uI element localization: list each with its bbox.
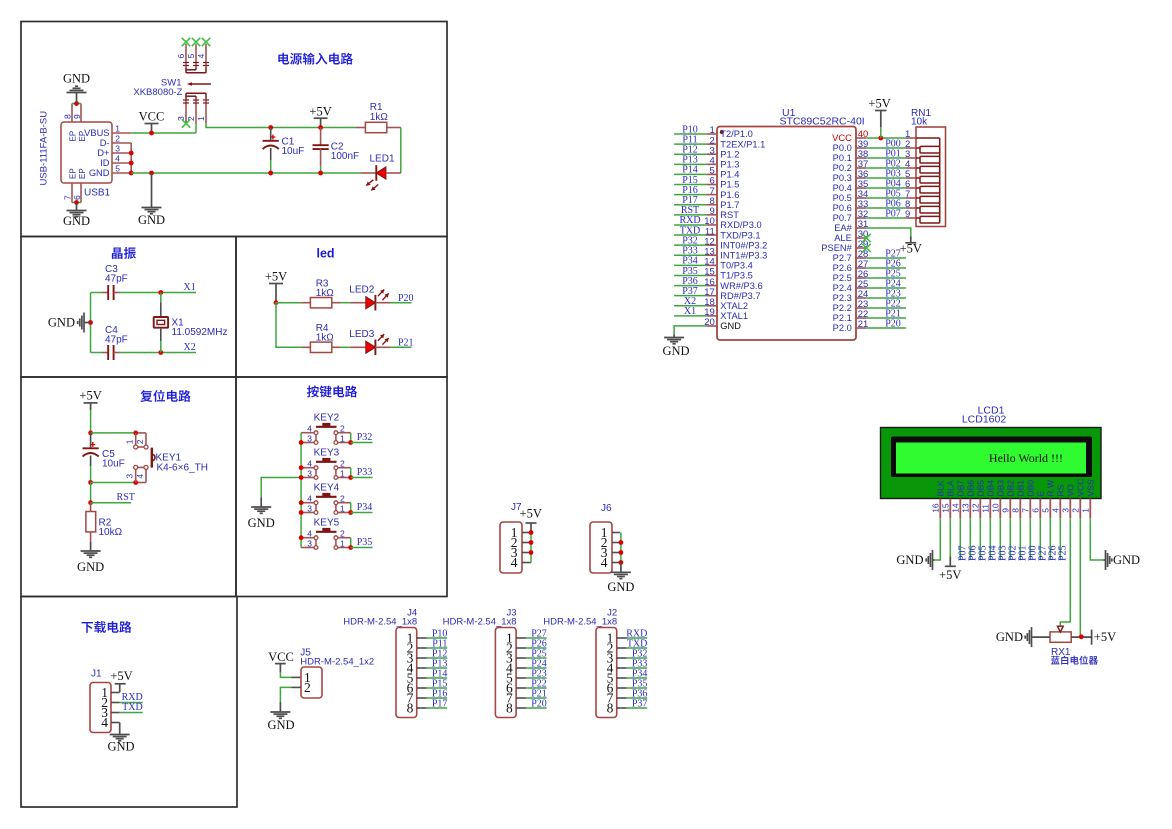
junction bottom shield bbox=[74, 200, 79, 205]
svg-text:J1: J1 bbox=[91, 669, 102, 680]
net label X1 at U1 bbox=[684, 306, 696, 317]
svg-text:6: 6 bbox=[72, 195, 82, 200]
svg-text:GND: GND bbox=[720, 321, 741, 331]
net label P34 bbox=[632, 668, 648, 679]
wire U1 P2.4 net P24 bbox=[866, 287, 906, 289]
ground GND U1 bbox=[662, 335, 689, 359]
svg-text:GND: GND bbox=[107, 740, 134, 754]
wire U1 pin20 GND bbox=[674, 326, 706, 335]
junction D+ bbox=[129, 151, 134, 156]
svg-text:2: 2 bbox=[340, 424, 345, 434]
svg-text:GND: GND bbox=[996, 630, 1023, 644]
R1 value labels bbox=[370, 102, 389, 123]
net label X2 bbox=[184, 342, 196, 353]
svg-text:9: 9 bbox=[1001, 508, 1011, 513]
LCD1 pins 16-1 bbox=[931, 499, 1091, 519]
net label P07 bbox=[885, 208, 901, 219]
wire U1 pin6 net P15 bbox=[674, 184, 706, 186]
led LED1 bbox=[362, 165, 401, 190]
svg-text:47pF: 47pF bbox=[105, 274, 128, 285]
svg-text:+5V: +5V bbox=[110, 669, 132, 683]
J3 pin 8 wire P20 bbox=[516, 707, 547, 709]
switch SW1 slider arrow bbox=[187, 82, 211, 86]
power +5V LCD backlight inverted bbox=[939, 557, 961, 582]
net label P11 at U1 bbox=[682, 134, 697, 145]
svg-text:GND: GND bbox=[248, 516, 275, 530]
net label RST bbox=[117, 492, 135, 503]
svg-text:1: 1 bbox=[1081, 508, 1091, 513]
power flag VCC J5 bbox=[268, 650, 294, 673]
svg-text:3: 3 bbox=[307, 468, 312, 478]
LCD1 pin name labels bbox=[936, 479, 1096, 497]
junction +5V rail at C2 bbox=[318, 125, 323, 130]
wire U1 P0.7 to RN1 bbox=[866, 217, 906, 219]
pushbutton KEY1 K4-6x6_TH bbox=[124, 433, 155, 483]
svg-text:3: 3 bbox=[124, 474, 134, 479]
svg-text:WR#/P3.6: WR#/P3.6 bbox=[720, 281, 762, 291]
wire LCD VSS to GND bbox=[1090, 518, 1103, 560]
svg-text:4: 4 bbox=[307, 529, 312, 539]
power +5V led section bbox=[265, 270, 287, 303]
net label RXD bbox=[626, 628, 647, 639]
J2 pin 7 wire P36 bbox=[617, 697, 648, 699]
net label P21 bbox=[398, 338, 414, 349]
net label P21 at U1 bbox=[885, 308, 901, 319]
wire U1 P2.5 net P25 bbox=[866, 277, 906, 279]
svg-text:P20: P20 bbox=[398, 293, 414, 304]
net label P26 bbox=[531, 638, 547, 649]
J4 pin 6 wire P15 bbox=[417, 687, 448, 689]
net label P15 bbox=[432, 678, 448, 689]
junction ID bbox=[129, 161, 134, 166]
pushbutton KEY2 bbox=[301, 413, 351, 445]
net label P10 at U1 bbox=[682, 124, 698, 135]
svg-text:BLA: BLA bbox=[946, 480, 956, 496]
svg-text:TXD: TXD bbox=[122, 702, 143, 713]
svg-text:P1.3: P1.3 bbox=[720, 160, 739, 170]
net label P12 at U1 bbox=[682, 145, 698, 156]
junction bus KEY3 bottom bbox=[299, 475, 304, 480]
net label P36 bbox=[632, 688, 648, 699]
display LCD1 LCD1602 bbox=[881, 405, 1102, 499]
net label P11 bbox=[432, 638, 447, 649]
svg-text:P0.0: P0.0 bbox=[833, 143, 852, 153]
svg-text:P33: P33 bbox=[357, 467, 373, 478]
power +5V U1 bbox=[868, 97, 890, 139]
J2 pin 1 wire RXD bbox=[617, 637, 648, 639]
J1 pin4 to GND bbox=[111, 722, 120, 724]
net label P06 rotated bbox=[967, 545, 978, 561]
J3 pin 5 wire P23 bbox=[516, 677, 547, 679]
wire KEY2 to P32 bbox=[351, 442, 373, 444]
ground GND top of USB1 bbox=[63, 72, 90, 104]
net label P26 at U1 bbox=[885, 258, 901, 269]
net label RXD bbox=[122, 692, 143, 703]
svg-text:14: 14 bbox=[951, 503, 961, 513]
net label P26 rotated bbox=[1047, 545, 1058, 561]
svg-text:P2.0: P2.0 bbox=[833, 323, 852, 333]
svg-text:2: 2 bbox=[115, 134, 120, 144]
wire U1 pin7 net P16 bbox=[674, 194, 706, 196]
svg-text:T2EX/P1.1: T2EX/P1.1 bbox=[720, 139, 765, 149]
svg-text:RST: RST bbox=[720, 210, 739, 220]
crystal X1 11.0592MHz bbox=[154, 293, 168, 353]
capacitor C4 47pF bbox=[102, 345, 120, 360]
J2 pin 4 wire P33 bbox=[617, 667, 648, 669]
svg-text:R.W: R.W bbox=[1046, 480, 1056, 497]
junction KEY1 pin3 bbox=[133, 480, 138, 485]
net label P01 rotated bbox=[1017, 545, 1028, 561]
wire LCD VO to potentiometer wiper bbox=[1060, 518, 1070, 627]
svg-text:RS: RS bbox=[1056, 484, 1066, 496]
svg-text:3: 3 bbox=[115, 144, 120, 154]
svg-text:P20: P20 bbox=[885, 318, 901, 329]
wire LCD BLK to GND bbox=[935, 518, 941, 560]
net label P34 at U1 bbox=[682, 256, 698, 267]
wire U1 pin8 net P17 bbox=[674, 204, 706, 206]
net label P00 rotated bbox=[1027, 545, 1038, 561]
C2 value labels bbox=[331, 142, 359, 163]
led LED3 bbox=[350, 334, 390, 355]
svg-text:LCD1602: LCD1602 bbox=[962, 413, 1007, 425]
svg-text:DB7: DB7 bbox=[956, 480, 966, 497]
svg-text:P2.5: P2.5 bbox=[833, 273, 852, 283]
wire keys GND stub bbox=[261, 478, 301, 498]
svg-text:ID: ID bbox=[100, 158, 110, 168]
wire LED2 to P20 bbox=[390, 302, 411, 304]
wire U1 pin17 net P37 bbox=[674, 295, 706, 297]
wire U1 pin4 net P13 bbox=[674, 163, 706, 165]
svg-text:2: 2 bbox=[340, 529, 345, 539]
svg-text:P0.3: P0.3 bbox=[833, 173, 852, 183]
svg-text:DB6: DB6 bbox=[966, 480, 976, 497]
svg-text:8: 8 bbox=[506, 701, 513, 716]
net label P17 bbox=[432, 698, 448, 709]
R4 value labels bbox=[316, 323, 335, 344]
resistor R2 10k bbox=[86, 503, 96, 542]
wire U1 pin19 net X1 bbox=[674, 315, 706, 317]
svg-text:P2.2: P2.2 bbox=[833, 303, 852, 313]
J2 pin 2 wire TXD bbox=[617, 647, 648, 649]
net label P03 rotated bbox=[997, 545, 1008, 561]
svg-text:RST: RST bbox=[117, 492, 135, 503]
wire KEY3 right link bbox=[350, 468, 352, 478]
J3 pin 4 wire P24 bbox=[516, 667, 547, 669]
wire +5V to R3/R4 bbox=[276, 303, 302, 348]
net label P20 bbox=[398, 293, 414, 304]
resistor R4 1k bbox=[302, 342, 341, 352]
svg-text:PSEN#: PSEN# bbox=[821, 243, 852, 253]
junction bus KEY5 top bbox=[299, 535, 304, 540]
svg-text:E: E bbox=[1036, 491, 1046, 497]
junction +5V rail at C1 bbox=[268, 125, 273, 130]
junction bus KEY4 top bbox=[299, 500, 304, 505]
junction KEY5 output bbox=[348, 545, 353, 550]
svg-text:4: 4 bbox=[101, 715, 108, 730]
svg-text:DB1: DB1 bbox=[1016, 480, 1026, 497]
svg-text:EP: EP bbox=[78, 131, 87, 142]
junction X1 node bbox=[158, 290, 163, 295]
junction reset bottom bbox=[88, 480, 93, 485]
wire crystal top X1 net bbox=[91, 292, 197, 294]
svg-text:EP: EP bbox=[68, 168, 77, 179]
wire U1 P0.0 to RN1 bbox=[866, 147, 906, 149]
J1 pin2 wire RXD bbox=[111, 702, 143, 704]
wire LCD pin7 net P00 bbox=[1029, 518, 1031, 560]
wire KEY5 right link bbox=[350, 538, 352, 548]
svg-text:P1.7: P1.7 bbox=[720, 200, 739, 210]
wire crystal bottom X2 net bbox=[91, 352, 197, 354]
svg-text:VSS: VSS bbox=[1086, 479, 1096, 496]
net label P33 at U1 bbox=[682, 246, 698, 257]
connector J7 body bbox=[500, 502, 522, 573]
svg-text:8: 8 bbox=[63, 114, 73, 119]
net label P25 bbox=[531, 648, 547, 659]
svg-text:4: 4 bbox=[511, 555, 518, 570]
ground GND J1 bbox=[107, 723, 134, 754]
svg-text:P17: P17 bbox=[432, 698, 448, 709]
wire U1 pin2 net P11 bbox=[674, 143, 706, 145]
ground GND RX1 bbox=[996, 627, 1032, 647]
svg-text:KEY3: KEY3 bbox=[314, 448, 340, 459]
svg-text:T1/P3.5: T1/P3.5 bbox=[720, 271, 753, 281]
wire U1 P0.2 to RN1 bbox=[866, 167, 906, 169]
svg-text:6: 6 bbox=[176, 54, 186, 59]
junction J7 pin1 bbox=[529, 530, 534, 535]
svg-text:X2: X2 bbox=[184, 342, 196, 353]
svg-text:RD#/P3.7: RD#/P3.7 bbox=[720, 291, 760, 301]
net label TXD at U1 bbox=[680, 225, 701, 236]
wire shield top bbox=[72, 103, 81, 105]
net label P00 bbox=[885, 138, 901, 149]
wire KEY4 right link bbox=[350, 503, 352, 513]
junction J6 pin3 bbox=[619, 550, 624, 555]
J4 pin 2 wire P11 bbox=[417, 647, 448, 649]
net label P37 bbox=[632, 698, 648, 709]
wire KEY2 right link bbox=[350, 433, 352, 443]
net label P22 bbox=[531, 678, 547, 689]
svg-text:13: 13 bbox=[961, 503, 971, 513]
wire U1 pin5 net P14 bbox=[674, 173, 706, 175]
switch SW1 top pins 6,5,4 with no-connect crosses bbox=[176, 38, 210, 68]
section title led bbox=[317, 247, 335, 261]
svg-text:KEY4: KEY4 bbox=[314, 483, 340, 494]
net label P35 bbox=[357, 537, 373, 548]
wire USB data pins tie bbox=[130, 143, 132, 173]
connector J5 HDR-M-2.54_1x2 bbox=[300, 648, 374, 699]
svg-text:DB0: DB0 bbox=[1026, 480, 1036, 497]
power +5V top rail bbox=[309, 105, 331, 128]
wire U1 P2.2 net P22 bbox=[866, 307, 906, 309]
wire U1 pin12 net P32 bbox=[674, 244, 706, 246]
wire J5 pin2 to GND bbox=[280, 687, 301, 702]
U1 right pins 40-21 bbox=[821, 129, 868, 333]
svg-text:GND: GND bbox=[138, 213, 165, 227]
net label P34 bbox=[357, 502, 373, 513]
J3 pin 7 wire P21 bbox=[516, 697, 547, 699]
SW1 reference label bbox=[133, 78, 182, 99]
ground GND J6 bbox=[607, 563, 634, 595]
section title 按键电路 bbox=[307, 385, 357, 397]
J2 pin 8 wire P37 bbox=[617, 707, 648, 709]
svg-text:8: 8 bbox=[607, 701, 614, 716]
net label P04 bbox=[885, 178, 901, 189]
svg-text:GND: GND bbox=[896, 553, 923, 567]
net label P25 rotated bbox=[1057, 545, 1068, 561]
junction bus KEY4 bottom bbox=[299, 510, 304, 515]
LED1 reference label bbox=[370, 154, 395, 165]
wire LCD pin14 net P07 bbox=[959, 518, 961, 560]
svg-text:KEY5: KEY5 bbox=[314, 518, 340, 529]
wire U1 P2.3 net P23 bbox=[866, 297, 906, 299]
svg-text:P2.6: P2.6 bbox=[833, 263, 852, 273]
net label P27 at U1 bbox=[885, 248, 901, 259]
svg-text:4: 4 bbox=[307, 424, 312, 434]
J3 pin 6 wire P22 bbox=[516, 687, 547, 689]
wire U1 pin18 net X2 bbox=[674, 305, 706, 307]
net label RXD at U1 bbox=[679, 215, 700, 226]
ground GND keys bbox=[248, 498, 275, 531]
svg-text:D+: D+ bbox=[97, 148, 109, 158]
svg-text:BLK: BLK bbox=[936, 480, 946, 496]
led LED2 bbox=[350, 290, 390, 311]
wire U1 pin13 net P33 bbox=[674, 254, 706, 256]
svg-text:7: 7 bbox=[1021, 508, 1031, 513]
svg-text:+5V: +5V bbox=[1094, 630, 1116, 644]
net label P32 at U1 bbox=[682, 235, 698, 246]
svg-text:J6: J6 bbox=[601, 503, 612, 514]
resistor R3 1k bbox=[302, 298, 341, 308]
svg-text:+5V: +5V bbox=[265, 270, 287, 284]
ground GND reset bbox=[77, 542, 104, 574]
J4 pin 1 wire P10 bbox=[417, 637, 448, 639]
switch SW1 bottom pins 3,2,1 bbox=[176, 99, 209, 124]
svg-text:P2.1: P2.1 bbox=[833, 313, 852, 323]
svg-text:4: 4 bbox=[135, 474, 145, 479]
wire LCD pin4 net P25 bbox=[1059, 518, 1061, 560]
svg-text:3: 3 bbox=[307, 538, 312, 548]
net label P23 at U1 bbox=[885, 288, 901, 299]
J4 pin 7 wire P16 bbox=[417, 697, 448, 699]
svg-text:12: 12 bbox=[971, 503, 981, 513]
svg-text:P21: P21 bbox=[398, 338, 414, 349]
wire reset to RST bbox=[90, 483, 92, 503]
svg-text:P25: P25 bbox=[1057, 545, 1068, 561]
net label TXD bbox=[627, 638, 648, 649]
no-connect cross PSEN# bbox=[862, 244, 870, 252]
J3 pin 2 wire P26 bbox=[516, 647, 547, 649]
junction X2 node bbox=[158, 350, 163, 355]
net label P15 at U1 bbox=[682, 175, 698, 186]
svg-text:9: 9 bbox=[72, 114, 82, 119]
wire U1 P2.6 net P26 bbox=[866, 267, 906, 269]
net label P16 at U1 bbox=[682, 185, 698, 196]
wire U1 P0.6 to RN1 bbox=[866, 207, 906, 209]
LED3 reference label bbox=[349, 329, 374, 340]
wire KEY4 to P34 bbox=[351, 512, 373, 514]
net label P27 rotated bbox=[1037, 545, 1048, 561]
ground GND LCD left bbox=[896, 550, 934, 570]
net label P10 bbox=[432, 628, 448, 639]
svg-text:X1: X1 bbox=[184, 282, 196, 293]
ground GND bottom of USB1 bbox=[63, 203, 90, 229]
ground GND LCD right bbox=[1104, 550, 1141, 570]
junction KEY1 pin1 bbox=[133, 431, 138, 436]
svg-text:+5V: +5V bbox=[868, 97, 890, 111]
svg-text:P0.1: P0.1 bbox=[833, 153, 852, 163]
svg-text:2: 2 bbox=[1071, 508, 1081, 513]
wire RST net bbox=[91, 502, 131, 504]
svg-text:2: 2 bbox=[135, 439, 145, 444]
wire R3 to LED2 bbox=[341, 302, 351, 304]
net label P36 at U1 bbox=[682, 276, 698, 287]
svg-text:LED1: LED1 bbox=[370, 154, 395, 165]
USB1 right pins 1-5 with names bbox=[84, 124, 131, 179]
net label P32 bbox=[632, 648, 648, 659]
svg-text:9: 9 bbox=[905, 209, 910, 220]
svg-text:INT1#/P3.3: INT1#/P3.3 bbox=[720, 250, 767, 260]
svg-text:GND: GND bbox=[63, 72, 90, 86]
svg-text:1: 1 bbox=[340, 433, 345, 443]
svg-text:GND: GND bbox=[89, 168, 110, 178]
svg-text:10kΩ: 10kΩ bbox=[99, 527, 123, 538]
net label P25 at U1 bbox=[885, 268, 901, 279]
svg-text:P0.2: P0.2 bbox=[833, 163, 852, 173]
wire U1 pin1 net P10 bbox=[674, 133, 706, 135]
svg-text:1: 1 bbox=[340, 538, 345, 548]
USB1 reference label bbox=[84, 188, 111, 199]
wire R1 to LED1 bbox=[400, 128, 402, 174]
svg-text:STC89C52RC-40I: STC89C52RC-40I bbox=[780, 116, 865, 128]
svg-text:HDR-M-2.54_1x8: HDR-M-2.54_1x8 bbox=[443, 616, 517, 627]
net label P02 bbox=[885, 158, 901, 169]
svg-text:P20: P20 bbox=[531, 698, 547, 709]
svg-text:HDR-M-2.54_1x8: HDR-M-2.54_1x8 bbox=[543, 616, 617, 627]
power flag VCC bbox=[139, 110, 165, 134]
svg-text:RXD/P3.0: RXD/P3.0 bbox=[720, 220, 761, 230]
svg-text:P1.4: P1.4 bbox=[720, 170, 739, 180]
net label P22 at U1 bbox=[885, 298, 901, 309]
wire U1 pin10 net RXD bbox=[674, 224, 706, 226]
wire SW1 pin1 to +5V rail bbox=[206, 124, 356, 128]
wire LCD pin13 net P06 bbox=[969, 518, 971, 560]
section title 下载电路 bbox=[82, 621, 132, 633]
wire VCC to J5 pin1 bbox=[280, 673, 301, 678]
wire +5V down reset bbox=[90, 410, 92, 433]
svg-text:P0.5: P0.5 bbox=[833, 193, 852, 203]
svg-text:DB4: DB4 bbox=[986, 480, 996, 497]
power +5V RX1 side bbox=[1092, 630, 1117, 645]
no-connect cross ALE bbox=[862, 234, 870, 242]
svg-text:P0.4: P0.4 bbox=[833, 183, 852, 193]
junction bus KEY3 top bbox=[299, 465, 304, 470]
svg-text:P1.5: P1.5 bbox=[720, 180, 739, 190]
svg-text:6: 6 bbox=[1031, 508, 1041, 513]
svg-text:10k: 10k bbox=[911, 117, 928, 128]
net label P01 bbox=[885, 148, 901, 159]
svg-text:4: 4 bbox=[307, 459, 312, 469]
wire U1 pin14 net P34 bbox=[674, 264, 706, 266]
junction J6 pin2 bbox=[619, 540, 624, 545]
section title 复位电路 bbox=[140, 390, 190, 402]
switch SW1 bottom bracket bbox=[186, 93, 206, 98]
junction +5V led bbox=[274, 300, 279, 305]
connector J4 HDR-M-2.54_1x8 body bbox=[343, 608, 417, 718]
svg-text:3: 3 bbox=[176, 116, 186, 121]
section title 晶振 bbox=[112, 247, 136, 259]
wire LCD pin9 net P02 bbox=[1009, 518, 1011, 560]
wire U1 P2.0 net P20 bbox=[866, 327, 906, 329]
